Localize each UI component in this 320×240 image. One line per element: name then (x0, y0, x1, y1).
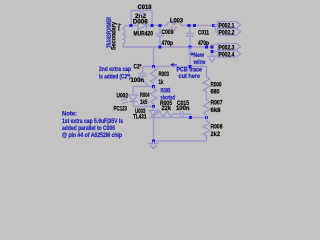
svg-text:@ pin #4 of A6252M chip: @ pin #4 of A6252M chip (62, 133, 122, 139)
svg-text:U002: U002 (117, 94, 129, 100)
node: low net / link (152, 65, 155, 68)
capacitor C2* (131, 65, 154, 87)
connector pin P002.2 (218, 29, 241, 37)
wire: return rail (123, 46, 213, 48)
ground at connector (207, 56, 217, 57)
annotation: 2nd extra cap (99, 67, 131, 81)
svg-text:R004: R004 (140, 93, 150, 99)
svg-text:TL431: TL431 (133, 114, 147, 120)
node: P002 top junction (212, 24, 215, 27)
node: D008 cathode junction (151, 24, 154, 27)
annotation: New wire (189, 52, 206, 66)
svg-text:C2*: C2* (134, 65, 143, 71)
wire: low net horizontal (143, 66, 207, 68)
resistor R005 (158, 101, 173, 117)
wire: link return rail to low net (153, 47, 155, 67)
connector pin P002.3 (218, 44, 241, 52)
capacitor C015 (173, 101, 191, 118)
svg-text:R008: R008 (211, 125, 224, 131)
node: R004 bottom / TL431 cathode (152, 105, 155, 108)
resistor R007 (203, 100, 223, 118)
node: D008 anode junction (130, 24, 133, 27)
svg-text:R003: R003 (159, 72, 170, 78)
svg-text:100n: 100n (131, 78, 145, 84)
svg-text:2k2: 2k2 (211, 132, 221, 138)
node: R003/R004 junction (152, 85, 155, 88)
node: L003 out (188, 24, 191, 27)
svg-text:R006: R006 (211, 83, 223, 89)
wire: P002.2 stub (214, 26, 219, 33)
svg-text:is added (C2*): is added (C2*) (99, 75, 131, 81)
annotation: note block (62, 112, 124, 140)
resistor R006 (203, 67, 222, 101)
inductor L003 (167, 19, 184, 31)
svg-text:Secondary: Secondary (112, 21, 118, 50)
wire: TL431 anode net (158, 117, 207, 119)
node: bus/P002.4 (211, 50, 214, 53)
svg-text:1st extra cap 5.6uF|35V is: 1st extra cap 5.6uF|35V is (62, 119, 124, 125)
svg-text:cut here: cut here (179, 74, 201, 80)
svg-text:Note:: Note: (62, 112, 77, 118)
svg-text:New: New (194, 53, 205, 59)
svg-text:L003: L003 (170, 19, 184, 25)
svg-text:470p: 470p (162, 41, 174, 47)
wire: bottom ground rail (154, 140, 207, 142)
connector pin P002.4 (218, 51, 241, 59)
ground symbol bottom (149, 141, 159, 144)
svg-text:R007: R007 (211, 101, 224, 107)
svg-text:wire: wire (193, 60, 207, 66)
capacitor C009 (156, 26, 174, 48)
node: return rail / C009 (159, 46, 162, 49)
svg-text:1k5: 1k5 (140, 100, 148, 106)
diode D008 (133, 14, 154, 38)
resistor R004 (140, 87, 157, 107)
svg-text:P002.4: P002.4 (219, 53, 236, 59)
node: divider mid junction (205, 116, 208, 119)
annotation: R005 shorted (161, 89, 176, 102)
svg-text:6k8: 6k8 (211, 108, 222, 114)
capacitor C011 (186, 26, 210, 48)
optocoupler U002 LED (114, 87, 153, 113)
svg-text:1k: 1k (159, 80, 164, 86)
svg-text:D008: D008 (133, 19, 149, 25)
transformer T secondary winding (123, 26, 127, 48)
annotation: PCB trace cut here (170, 63, 203, 80)
svg-text:P002.2: P002.2 (219, 31, 236, 37)
svg-text:2nd extra cap: 2nd extra cap (99, 67, 131, 73)
wire: top output rail (126, 25, 218, 27)
node: C009 top (159, 24, 162, 27)
resistor R008 (203, 118, 223, 142)
svg-text:C011: C011 (198, 31, 210, 37)
node: bus/rail (211, 46, 214, 49)
wire: C011 extension down (189, 47, 191, 67)
resistor R003 (150, 67, 169, 87)
connector pin P002.1 (218, 22, 241, 30)
node: C015 / anode net (189, 116, 192, 119)
node: return rail / C011 (189, 46, 192, 49)
node: ground junction (152, 140, 155, 143)
shunt regulator U003 TL431 (133, 107, 159, 142)
svg-text:MUR420: MUR420 (134, 32, 154, 38)
svg-text:PC123: PC123 (114, 107, 128, 113)
capacitor C018 snubber branch (131, 5, 152, 26)
svg-text:100n: 100n (176, 106, 190, 112)
svg-text:PCB trace: PCB trace (177, 67, 203, 73)
svg-text:22k: 22k (162, 106, 172, 112)
svg-text:added parallel to C006: added parallel to C006 (62, 126, 116, 132)
wire: P002.3/4 bus (212, 45, 218, 56)
node: low net / C011 ext (189, 65, 192, 68)
node: rail join (193, 24, 196, 27)
svg-text:C009: C009 (162, 30, 175, 36)
mouse cursor (117, 23, 121, 31)
svg-text:C018: C018 (138, 5, 153, 11)
svg-text:680: 680 (211, 90, 221, 96)
svg-text:R005: R005 (161, 89, 171, 95)
node: return rail spare (205, 46, 208, 49)
